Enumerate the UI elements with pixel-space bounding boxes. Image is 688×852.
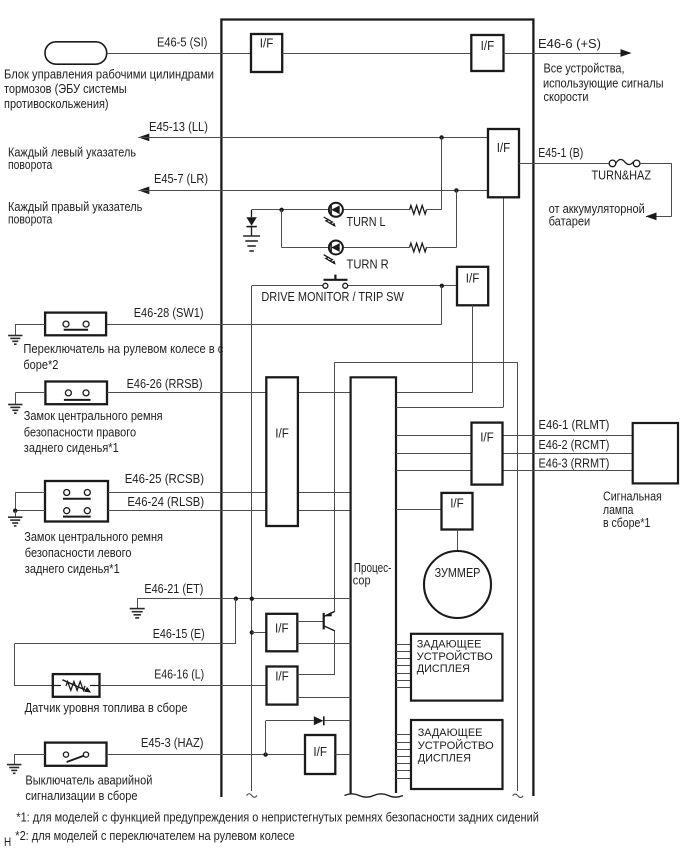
label: Замок левого (3 lines) xyxy=(24,530,163,576)
svg-text:безопасности правого: безопасности правого xyxy=(24,425,136,439)
junction ET/drop xyxy=(250,597,254,601)
svg-text:E45-13 (LL): E45-13 (LL) xyxy=(149,120,208,134)
svg-text:I/F: I/F xyxy=(450,497,464,511)
svg-text:E46-16 (L): E46-16 (L) xyxy=(154,668,204,682)
wire SW1 to ground xyxy=(15,324,45,335)
wire turn L row xyxy=(252,209,442,211)
junction ground RLSB xyxy=(13,509,17,513)
label Процессор xyxy=(353,561,392,588)
footnote *2 xyxy=(15,829,294,843)
svg-text:E46-24 (RLSB): E46-24 (RLSB) xyxy=(127,495,204,509)
ECU outer box (open bottom) xyxy=(221,20,533,798)
wire to fuel sender xyxy=(14,685,52,687)
svg-text:УСТРОЙСТВО: УСТРОЙСТВО xyxy=(418,739,494,752)
wire L I/F out upper xyxy=(298,674,336,676)
svg-text:*2: для моделей с переключател: *2: для моделей с переключателем на руле… xyxy=(15,829,294,843)
wire emitter drop xyxy=(334,631,336,675)
svg-text:E46-1 (RLMT): E46-1 (RLMT) xyxy=(539,418,610,432)
junction LL/turnL xyxy=(439,135,443,139)
label: Замок правого (3 lines) xyxy=(24,409,163,455)
LED TURN L xyxy=(324,203,343,227)
label E46-15 (E) xyxy=(153,627,205,641)
wire RCSB to I/F xyxy=(108,492,266,494)
svg-text:ДИСПЛЕЯ: ДИСПЛЕЯ xyxy=(417,663,470,675)
svg-text:E46-3 (RRMT): E46-3 (RRMT) xyxy=(539,456,610,470)
telltale lamp box xyxy=(633,423,678,483)
wire L I/F out lower xyxy=(298,697,351,699)
svg-text:E46-26 (RRSB): E46-26 (RRSB) xyxy=(127,377,203,391)
label E46-26 (RRSB) xyxy=(127,377,203,391)
wire E left drop xyxy=(14,644,16,686)
wire base xyxy=(297,621,323,623)
wire RCSB I/F out xyxy=(298,492,351,494)
wire RRMT xyxy=(396,470,633,472)
I/F U7 (buzzer) xyxy=(442,493,473,530)
junction E IF input xyxy=(250,630,254,634)
ground (ET) xyxy=(130,609,145,618)
wire ET ground stem xyxy=(137,599,139,609)
label TURN R xyxy=(347,257,389,271)
wire diode branch xyxy=(266,721,351,755)
junction HAZ/diode xyxy=(263,752,267,756)
resistor R (turn R) xyxy=(410,243,427,252)
svg-text:использующие сигналы: использующие сигналы xyxy=(543,76,664,90)
wire L row xyxy=(100,685,267,687)
processor box (wavy bottom) xyxy=(345,377,403,797)
wire RCSB left elbow xyxy=(15,493,45,511)
label E46-28 (SW1) xyxy=(134,306,204,320)
wire SI: I/F1 to I/F2 xyxy=(282,53,471,55)
svg-text:Все устройства,: Все устройства, xyxy=(544,61,625,75)
wire RLMT xyxy=(396,435,633,437)
ground (RCSB/RLSB) xyxy=(8,517,22,526)
svg-text:E46-5 (SI): E46-5 (SI) xyxy=(157,36,207,50)
I/F U3 tall (seat belt) xyxy=(266,377,298,526)
svg-text:УСТРОЙСТВО: УСТРОЙСТВО xyxy=(417,650,493,663)
hazard switch xyxy=(45,743,107,766)
label ЗУММЕР xyxy=(435,566,481,580)
wire emitter row xyxy=(297,643,350,645)
fuse TURN&HAZ xyxy=(609,159,640,166)
svg-text:поворота: поворота xyxy=(8,158,52,172)
I/F U5 (flasher) xyxy=(488,129,519,197)
svg-text:Замок центрального ремня: Замок центрального ремня xyxy=(24,409,163,423)
svg-text:I/F: I/F xyxy=(481,39,495,53)
svg-text:I/F: I/F xyxy=(260,37,274,51)
wire RRSB to I/F xyxy=(107,392,266,394)
wire RLSB to I/F xyxy=(108,510,266,512)
svg-text:противоскольжения): противоскольжения) xyxy=(4,97,109,111)
wire B out xyxy=(519,163,609,165)
display driver box 1 xyxy=(411,634,503,701)
I/F U2 (speed out) xyxy=(471,35,503,71)
label: Переключатель на рулевом xyxy=(23,342,223,372)
svg-text:безопасности левого: безопасности левого xyxy=(25,546,132,560)
wire turnL riser xyxy=(441,137,443,209)
svg-text:Блок управления рабочими цилин: Блок управления рабочими цилиндрами xyxy=(4,67,214,81)
ground (SW1) xyxy=(8,336,22,345)
svg-text:заднего сиденья*1: заднего сиденья*1 xyxy=(25,562,120,576)
svg-text:боре*2: боре*2 xyxy=(23,358,58,372)
svg-text:I/F: I/F xyxy=(275,670,289,684)
svg-text:I/F: I/F xyxy=(313,745,327,759)
wire E row xyxy=(14,643,236,645)
wire +S out with arrow xyxy=(504,49,632,57)
svg-text:Н: Н xyxy=(4,837,11,849)
wire collector riser xyxy=(334,362,336,611)
svg-text:TURN&HAZ: TURN&HAZ xyxy=(592,169,652,183)
wire battery elbow xyxy=(640,163,672,220)
svg-text:сор: сор xyxy=(353,574,371,588)
svg-text:I/F: I/F xyxy=(275,622,289,636)
svg-text:лампа: лампа xyxy=(603,503,633,517)
svg-text:E45-7 (LR): E45-7 (LR) xyxy=(154,172,208,186)
svg-text:*1: для моделей с функцией пре: *1: для моделей с функцией предупреждени… xyxy=(16,811,539,825)
wire U5 bottom to processor xyxy=(396,197,504,407)
svg-text:ЗАДАЮЩЕЕ: ЗАДАЮЩЕЕ xyxy=(418,727,483,739)
wire U4 bottom to processor xyxy=(396,305,473,392)
label E45-13 (LL) xyxy=(149,120,208,134)
label E45-1 (B) xyxy=(538,146,583,160)
svg-text:I/F: I/F xyxy=(275,427,289,441)
junction ET/E xyxy=(234,597,238,601)
svg-text:DRIVE MONITOR / TRIP SW: DRIVE MONITOR / TRIP SW xyxy=(261,290,403,304)
svg-text:E46-21 (ET): E46-21 (ET) xyxy=(144,582,203,596)
wire ET row xyxy=(137,598,350,600)
label: Каждый левый указатель xyxy=(8,146,136,172)
wire HAZ to ground xyxy=(14,755,45,765)
label E46-24 (RLSB) xyxy=(127,495,204,509)
bus processor to display driver 1 xyxy=(396,645,411,688)
svg-text:тормозов (ЭБУ системы: тормозов (ЭБУ системы xyxy=(4,82,127,96)
svg-text:E46-15 (E): E46-15 (E) xyxy=(153,627,205,641)
svg-text:TURN R: TURN R xyxy=(347,257,389,271)
label: ЗАДАЮЩЕЕ УСТРОЙСТВО ДИСПЛЕЯ 1 xyxy=(417,639,493,676)
label: Выключатель аварийной xyxy=(25,773,152,803)
transistor Q1 (PNP) xyxy=(324,611,335,631)
svg-text:E46-2 (RCMT): E46-2 (RCMT) xyxy=(539,438,610,452)
push switch contacts xyxy=(323,275,348,289)
svg-text:E46-28 (SW1): E46-28 (SW1) xyxy=(134,306,204,320)
label TURN L xyxy=(347,215,386,229)
wire LR with arrow xyxy=(138,187,488,195)
wire SI: ABS block to I/F1 xyxy=(107,53,251,55)
wire LL with arrow xyxy=(138,134,488,142)
wire collector net xyxy=(335,362,518,791)
wire I/F to buzzer xyxy=(457,530,459,552)
fuel sender (variable resistor) xyxy=(53,674,100,697)
wire turnR riser xyxy=(456,190,458,247)
svg-text:сигнализации в сборе: сигнализации в сборе xyxy=(25,789,137,803)
label: от аккумуляторной батареи xyxy=(549,202,645,229)
wire sw1 riser xyxy=(106,286,442,325)
seat belt double switch xyxy=(45,481,108,522)
resistor R (turn L) xyxy=(410,206,427,215)
label: Все устройства (3 lines) xyxy=(543,61,664,104)
wire RCMT xyxy=(396,453,633,455)
footnote *1 xyxy=(16,811,539,825)
label E46-5 (SI) xyxy=(157,36,207,50)
I/F U10 (hazard) xyxy=(305,735,335,774)
wire RLSB left xyxy=(15,510,45,512)
label: Датчик уровня топлива в сборе xyxy=(25,701,188,715)
LED TURN R xyxy=(324,241,343,265)
label E46-1 (RLMT) xyxy=(539,418,610,432)
skid control ECU block (rounded) xyxy=(45,42,107,64)
svg-text:I/F: I/F xyxy=(497,141,511,155)
svg-text:батареи: батареи xyxy=(549,215,591,229)
wire E riser xyxy=(235,599,237,644)
ground (diode) xyxy=(243,236,260,251)
ground (HAZ) xyxy=(7,765,21,774)
diode D2 xyxy=(314,716,324,725)
svg-text:Замок центрального ремня: Замок центрального ремня xyxy=(24,530,163,544)
wire drive monitor left drop xyxy=(251,286,253,791)
svg-text:Сигнальная: Сигнальная xyxy=(603,489,662,503)
wire RRSB I/F out xyxy=(298,392,351,394)
ground (RRSB) xyxy=(8,405,22,414)
label: ЗАДАЮЩЕЕ УСТРОЙСТВО ДИСПЛЕЯ 2 xyxy=(418,727,494,765)
svg-text:ЗУММЕР: ЗУММЕР xyxy=(435,566,481,580)
junction turnL/turnR branch xyxy=(279,208,283,212)
wire turnR elbow xyxy=(282,210,457,248)
label TURN&HAZ xyxy=(592,169,652,183)
svg-text:в сборе*1: в сборе*1 xyxy=(603,516,650,530)
label E46-6 (+S) xyxy=(538,37,601,51)
I/F U9 (ET/E) xyxy=(266,614,297,652)
svg-text:E45-3 (HAZ): E45-3 (HAZ) xyxy=(141,736,204,750)
svg-text:E45-1 (B): E45-1 (B) xyxy=(538,146,583,160)
svg-text:Датчик уровня топлива в сборе: Датчик уровня топлива в сборе xyxy=(25,701,188,715)
svg-text:заднего сиденья*1: заднего сиденья*1 xyxy=(24,441,119,455)
label E46-21 (ET) xyxy=(144,582,203,596)
seat belt switch RRSB xyxy=(45,382,107,405)
svg-text:I/F: I/F xyxy=(466,271,480,285)
label E46-3 (RRMT) xyxy=(539,456,610,470)
buzzer circle xyxy=(424,551,491,618)
svg-text:Выключатель аварийной: Выключатель аварийной xyxy=(25,773,152,787)
label E45-7 (LR) xyxy=(154,172,208,186)
wire HAZ I/F out xyxy=(335,754,350,756)
page letter H xyxy=(4,837,11,849)
junction drive monitor xyxy=(440,284,444,288)
svg-text:Переключатель на рулевом колес: Переключатель на рулевом колесе в с xyxy=(23,342,223,356)
label: Каждый правый указатель xyxy=(8,200,143,226)
wire processor to buzzer I/F xyxy=(396,509,442,511)
I/F U6 (telltale) xyxy=(472,423,503,485)
svg-text:I/F: I/F xyxy=(480,431,494,445)
label E45-3 (HAZ) xyxy=(141,736,204,750)
label E46-25 (RCSB) xyxy=(125,472,204,486)
svg-text:скорости: скорости xyxy=(544,90,589,104)
I/F U1 (speed in) xyxy=(251,34,282,72)
I/F U8 (fuel) xyxy=(267,667,298,705)
wire stem to ground xyxy=(15,511,17,517)
label: Блок управления (3 lines) xyxy=(4,67,214,111)
wire to E I/F xyxy=(252,632,266,634)
svg-text:ДИСПЛЕЯ: ДИСПЛЕЯ xyxy=(418,753,471,765)
label E46-16 (L) xyxy=(154,668,204,682)
display driver box 2 xyxy=(411,720,503,789)
label E46-2 (RCMT) xyxy=(539,438,610,452)
wire RLSB I/F out xyxy=(298,510,351,512)
label: Сигнальная лампа в сборе*1 xyxy=(603,489,662,530)
wire HAZ row xyxy=(107,754,306,756)
svg-text:E46-25 (RCSB): E46-25 (RCSB) xyxy=(125,472,204,486)
svg-text:TURN L: TURN L xyxy=(347,215,386,229)
label DRIVE MONITOR / TRIP SW xyxy=(261,290,403,304)
diode D1 to ground xyxy=(246,210,256,236)
squiggle end (collector net) xyxy=(513,794,524,798)
I/F U4 (trip sw) xyxy=(457,267,488,306)
steering wheel switch SW1 xyxy=(45,313,106,336)
junction LR/turnR xyxy=(454,188,458,192)
wire drive monitor row xyxy=(252,285,457,287)
wire RRSB to ground xyxy=(15,393,45,405)
svg-text:E46-6 (+S): E46-6 (+S) xyxy=(538,37,601,51)
svg-text:поворота: поворота xyxy=(8,212,52,226)
squiggle end (left drop) xyxy=(247,794,258,798)
svg-text:ЗАДАЮЩЕЕ: ЗАДАЮЩЕЕ xyxy=(417,639,482,651)
bus processor to display driver 2 xyxy=(396,735,411,779)
